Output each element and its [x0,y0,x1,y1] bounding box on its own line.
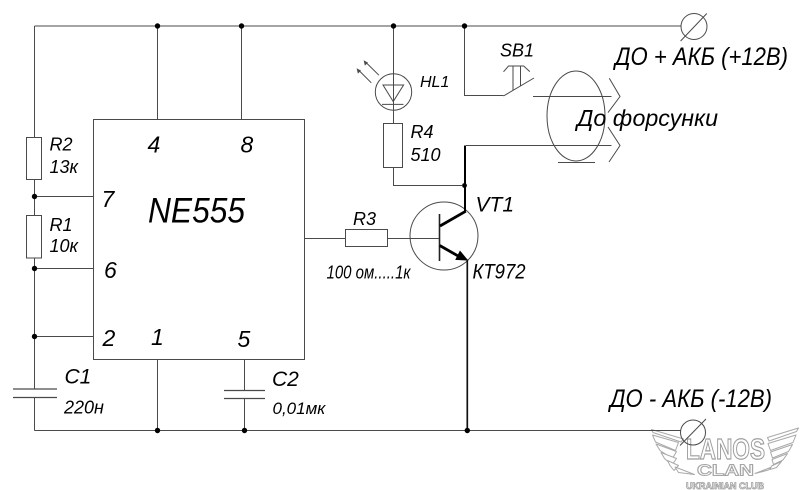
LED HL1 [375,74,411,110]
logo watermark [652,428,799,475]
switch SB1 [504,66,535,96]
svg-text:До форсунки: До форсунки [574,105,718,131]
svg-text:4: 4 [148,132,161,158]
svg-text:C1: C1 [65,366,92,389]
svg-text:R3: R3 [353,209,376,229]
injector bottom arrow head [608,127,620,162]
wire R3 to base [388,238,439,240]
svg-text:R4: R4 [411,122,434,142]
svg-text:R2: R2 [50,135,73,155]
node pin7 left [32,194,37,199]
wire pin 2 [35,336,94,338]
node pin2 left [32,334,37,339]
transistor VT1 collector [464,146,466,212]
svg-text:1: 1 [151,324,164,350]
logo right wing [768,428,799,441]
terminal +12V [681,14,707,42]
wire LED branch [393,26,395,124]
IC NE555 body [94,120,305,360]
capacitor C1 [13,389,57,398]
svg-text:2: 2 [102,325,116,351]
node emitter bottom [465,428,470,433]
LED HL1 light arrows [357,60,379,83]
wire SB1 branch [465,26,504,96]
wire bottom rail over logo [645,430,681,432]
node pin8 top [239,23,244,28]
svg-text:UKRAINIAN CLUB: UKRAINIAN CLUB [686,481,764,490]
svg-text:100 ом.....1к: 100 ом.....1к [327,263,412,283]
node pin4 top [155,23,160,28]
transistor VT1 base bar [439,214,441,261]
logo left wing [652,430,684,443]
svg-text:ДО + АКБ (+12В): ДО + АКБ (+12В) [612,43,788,71]
svg-text:ДО - АКБ (-12В): ДО - АКБ (-12В) [607,385,772,413]
svg-text:C2: C2 [272,368,299,391]
wire bottom rail [35,430,681,432]
node pin6 left [32,266,37,271]
node SB1 top [462,23,467,28]
wire pin 8 stub [241,26,243,120]
injector top arrow [533,78,620,112]
wire pin 1 stub [157,360,159,431]
node collector R4 [462,183,467,188]
terminal -12V [680,419,706,446]
svg-text:7: 7 [102,186,116,212]
svg-text:NE555: NE555 [148,192,245,231]
resistor R1 [27,216,42,259]
capacitor C2 [224,391,265,399]
wire R4 bottom to collector node [394,168,463,186]
wire pin 4 stub [157,26,159,120]
node pin1 bottom [155,428,160,433]
wire pin 6 [35,268,94,270]
svg-text:CLAN: CLAN [697,463,754,480]
resistor R4 [384,124,403,168]
svg-text:0,01мк: 0,01мк [273,399,327,418]
injector base tick [558,162,595,164]
resistor R3 [346,230,388,247]
svg-text:6: 6 [104,257,117,283]
wire pin 5 stub [244,360,246,431]
svg-text:LANOS: LANOS [686,434,765,466]
wire collector to injector arrow [466,145,612,147]
wire left rail [34,26,36,431]
svg-text:VT1: VT1 [476,194,515,217]
svg-text:510: 510 [411,145,441,165]
node C2 bottom [242,428,247,433]
wire emitter down [466,260,468,431]
wire pin 7 [35,196,94,198]
wire pin 3 output [305,238,346,240]
wire top rail [35,25,682,27]
svg-text:10к: 10к [50,236,80,256]
svg-text:R1: R1 [50,215,73,235]
injector ellipse [547,71,605,161]
svg-text:13к: 13к [50,157,80,177]
svg-text:8: 8 [241,132,254,158]
svg-text:220н: 220н [63,398,104,418]
resistor R2 [27,138,42,180]
node LED top [391,23,396,28]
svg-text:SB1: SB1 [500,41,534,61]
transistor VT1 [410,202,478,270]
transistor VT1 emitter [440,246,460,257]
svg-text:5: 5 [238,326,251,352]
svg-text:КТ972: КТ972 [473,261,526,284]
svg-text:HL1: HL1 [420,74,449,91]
